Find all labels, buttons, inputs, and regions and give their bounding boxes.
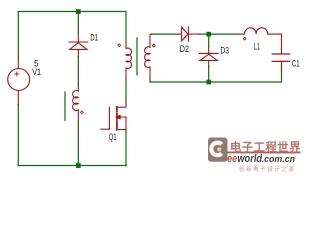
svg-text:D3: D3: [220, 46, 229, 56]
wire node to D3: [208, 37, 210, 47]
polarity dot L1: [243, 37, 246, 40]
transformer primary winding: [126, 42, 131, 78]
wire D1 to reset winding: [77, 57, 79, 86]
svg-text:C1: C1: [292, 58, 300, 68]
svg-text:Q1: Q1: [109, 132, 117, 142]
svg-text:D2: D2: [180, 44, 189, 54]
wire left vertical upper: [17, 12, 19, 58]
wire bottom rail: [18, 165, 127, 167]
transformer core line left: [64, 92, 66, 120]
wire C1 bottom: [281, 71, 283, 82]
wire D2 to node: [200, 33, 207, 35]
mosfet Q1: [101, 102, 126, 132]
wire top rail: [18, 11, 126, 13]
wire left vertical lower: [17, 105, 19, 166]
junction top rail: [76, 9, 81, 14]
wire reset winding to bottom rail: [77, 122, 79, 166]
transformer reset winding: [73, 85, 79, 122]
wire junction to D1: [77, 12, 79, 33]
polarity dot reset winding: [81, 111, 84, 114]
junction secondary bottom: [206, 80, 211, 85]
voltage source V1: [8, 58, 30, 105]
svg-text:D1: D1: [90, 33, 98, 43]
diode D1: [69, 33, 88, 57]
svg-text:V1: V1: [32, 67, 41, 77]
wire Q1 source to bottom rail: [125, 131, 127, 165]
inductor L1: [238, 28, 281, 54]
wire primary to Q1 drain: [125, 78, 127, 103]
wire D3 to rail: [208, 67, 210, 81]
wire secondary top: [151, 33, 178, 35]
transformer core line right: [136, 38, 138, 75]
junction bottom rail: [76, 163, 81, 168]
wire primary drop: [125, 12, 127, 42]
wire node to L1: [211, 33, 238, 35]
svg-text:L1: L1: [254, 41, 260, 51]
diode D3: [199, 47, 218, 67]
polarity dot secondary: [152, 44, 155, 47]
transformer secondary winding: [145, 34, 151, 79]
wire secondary bottom rail: [150, 81, 282, 83]
junction secondary top: [206, 32, 211, 37]
diode D2: [178, 27, 200, 41]
polarity dot primary: [118, 44, 121, 47]
watermark logo eeworld: [208, 137, 304, 176]
capacitor C1: [272, 54, 290, 71]
wire secondary winding to rail: [149, 79, 151, 82]
